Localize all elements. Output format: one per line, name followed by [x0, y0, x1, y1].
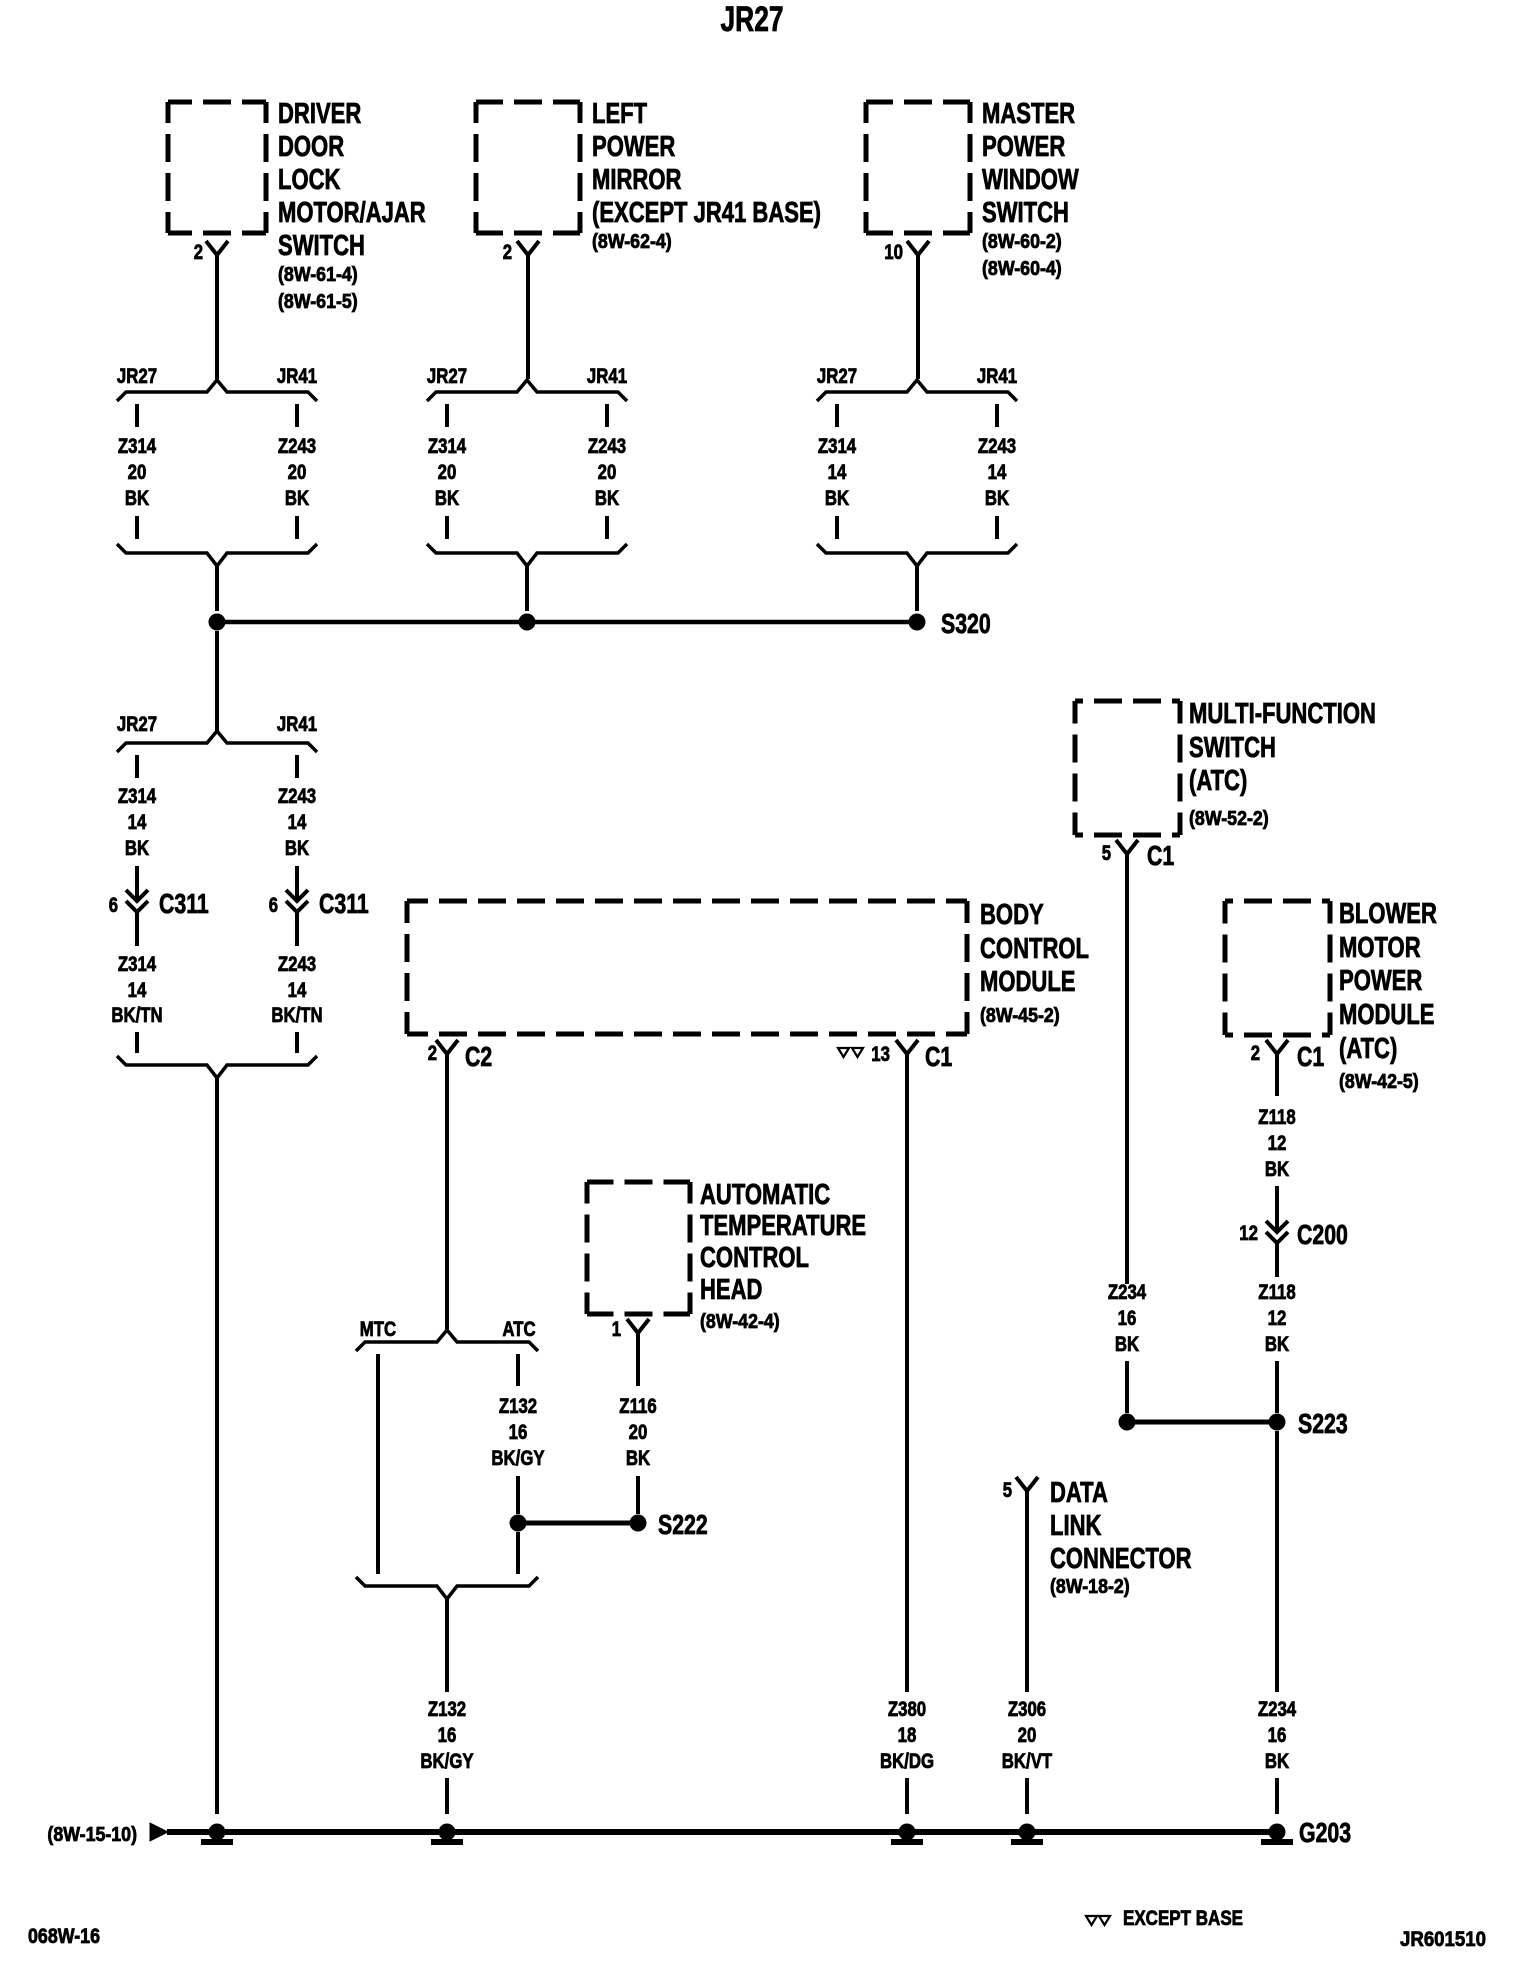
svg-text:AUTOMATIC: AUTOMATIC: [700, 1179, 830, 1211]
svg-text:(8W-52-2): (8W-52-2): [1189, 808, 1269, 830]
merge brace (second level): [117, 1056, 317, 1078]
junction dot S320 right: [909, 614, 926, 631]
wire from DRIVER DOOR LOCK MOTOR/AJAR SWITCH pin 2 down to split brace: [215, 255, 219, 379]
svg-text:BK/TN: BK/TN: [111, 1004, 162, 1027]
svg-text:BK: BK: [1115, 1333, 1139, 1356]
svg-text:(8W-15-10): (8W-15-10): [47, 1824, 137, 1846]
svg-text:(8W-61-4): (8W-61-4): [278, 264, 358, 286]
svg-text:(8W-18-2): (8W-18-2): [1050, 1576, 1130, 1598]
wire from Z132 label to splice S222: [516, 1476, 520, 1514]
svg-text:(ATC): (ATC): [1339, 1033, 1397, 1065]
junction dot S223 left: [1119, 1414, 1136, 1431]
svg-text:SWITCH: SWITCH: [278, 230, 365, 262]
svg-text:13: 13: [871, 1043, 890, 1066]
wire from Z234 label to splice S223: [1125, 1361, 1129, 1413]
ground bus wire G203: [167, 1829, 1277, 1835]
wire stub JR41 (second level): [295, 755, 299, 778]
wire from MASTER POWER WINDOW SWITCH pin 10 down to split brace: [916, 255, 920, 379]
svg-text:18: 18: [898, 1724, 917, 1747]
wire from S320 down to second split brace: [215, 631, 219, 731]
wire stub to ground (Z132): [445, 1778, 449, 1814]
pin 13 connector C1 of body control module: [838, 1048, 849, 1057]
svg-text:5: 5: [1003, 1479, 1013, 1502]
svg-text:(ATC): (ATC): [1189, 765, 1247, 797]
svg-text:Z116: Z116: [619, 1395, 656, 1418]
merge brace under master power window switch: [817, 544, 1017, 566]
svg-text:C311: C311: [159, 888, 209, 919]
splice S222 bus wire: [518, 1521, 638, 1526]
svg-text:BK/GY: BK/GY: [420, 1750, 473, 1773]
svg-text:JR41: JR41: [277, 365, 317, 388]
svg-text:MULTI-FUNCTION: MULTI-FUNCTION: [1189, 698, 1376, 730]
svg-text:(8W-60-4): (8W-60-4): [982, 258, 1062, 280]
wire from merge brace to splice S320 (left power mirror): [525, 566, 529, 611]
wire into connector C311 right: [295, 866, 299, 900]
wire stub JR27 (driver door lock): [135, 404, 139, 427]
component box BLOWER MOTOR POWER MODULE (ATC): [1225, 899, 1330, 904]
svg-text:14: 14: [288, 979, 307, 1002]
wire stub JR27 (second level): [135, 755, 139, 778]
ground symbol at Z306 wire: [1019, 1824, 1036, 1841]
svg-text:BLOWER: BLOWER: [1339, 898, 1437, 930]
svg-text:Z243: Z243: [588, 435, 626, 458]
svg-text:2: 2: [503, 241, 512, 264]
wire stub above merge (right): [295, 1032, 299, 1053]
wire from BCM C2 down to MTC/ATC split brace: [445, 1054, 449, 1329]
wire from BCM C1 down toward ground: [905, 1054, 909, 1692]
svg-text:JR27: JR27: [721, 0, 784, 39]
svg-text:S320: S320: [941, 608, 991, 639]
svg-text:14: 14: [288, 811, 307, 834]
wire MTC branch (long): [376, 1354, 380, 1574]
svg-text:20: 20: [598, 461, 617, 484]
svg-text:Z132: Z132: [428, 1698, 466, 1721]
svg-text:CONNECTOR: CONNECTOR: [1050, 1543, 1192, 1575]
wire stub JR41 (driver door lock): [295, 404, 299, 427]
svg-text:(8W-60-2): (8W-60-2): [982, 231, 1062, 253]
svg-text:LOCK: LOCK: [278, 164, 340, 196]
wire stub JR41 (left power mirror): [605, 404, 609, 427]
svg-text:Z314: Z314: [118, 953, 157, 976]
merge brace under driver door lock: [117, 544, 317, 566]
svg-text:BK: BK: [125, 837, 149, 860]
component box MULTI-FUNCTION SWITCH (ATC): [1075, 699, 1180, 704]
svg-text:5: 5: [1102, 842, 1112, 865]
wire stub ATC branch: [516, 1354, 520, 1386]
svg-text:EXCEPT BASE: EXCEPT BASE: [1123, 1907, 1243, 1930]
svg-text:16: 16: [509, 1421, 528, 1444]
svg-text:20: 20: [288, 461, 307, 484]
wire stub lower JR27 (master power window switch): [835, 516, 839, 539]
svg-text:CONTROL: CONTROL: [980, 933, 1089, 965]
junction dot S223 right: [1269, 1414, 1286, 1431]
svg-text:MASTER: MASTER: [982, 98, 1075, 130]
svg-text:C1: C1: [1297, 1041, 1324, 1072]
svg-text:16: 16: [1118, 1307, 1137, 1330]
split brace JR27/JR41 under master power window switch: [817, 380, 1017, 401]
component box LEFT POWER MIRROR: [476, 100, 580, 105]
svg-text:Z243: Z243: [978, 435, 1016, 458]
svg-text:BK: BK: [1265, 1750, 1289, 1773]
component box DRIVER DOOR LOCK MOTOR/AJAR SWITCH: [168, 100, 266, 105]
wire stub lower JR41 (master power window switch): [995, 516, 999, 539]
junction dot S222 left: [510, 1515, 527, 1532]
wire stub lower JR41 (driver door lock): [295, 516, 299, 539]
ground symbol at Z314/Z243 wire: [209, 1824, 226, 1841]
svg-text:JR27: JR27: [427, 365, 467, 388]
svg-text:20: 20: [629, 1421, 648, 1444]
long wire from second merge down to ground bus: [215, 1078, 219, 1814]
wire stub JR27 (left power mirror): [445, 404, 449, 427]
svg-text:JR41: JR41: [977, 365, 1017, 388]
arrow into ground bus: [150, 1823, 168, 1841]
svg-text:BK: BK: [985, 487, 1009, 510]
svg-text:BK/VT: BK/VT: [1002, 1750, 1053, 1773]
svg-text:12: 12: [1268, 1307, 1287, 1330]
wire stub to ground (Z306): [1025, 1778, 1029, 1814]
svg-text:WINDOW: WINDOW: [982, 164, 1079, 196]
svg-text:BK: BK: [825, 487, 849, 510]
svg-text:(EXCEPT JR41 BASE): (EXCEPT JR41 BASE): [592, 197, 821, 229]
svg-text:2: 2: [1251, 1042, 1260, 1065]
ground symbol G203: [1269, 1824, 1286, 1841]
component box MASTER POWER WINDOW SWITCH: [866, 100, 970, 105]
wire below C311 right: [295, 911, 299, 946]
svg-text:MIRROR: MIRROR: [592, 164, 681, 196]
svg-text:MOTOR: MOTOR: [1339, 932, 1421, 964]
svg-text:G203: G203: [1299, 1817, 1351, 1848]
wire into connector C311 left: [135, 866, 139, 900]
svg-text:20: 20: [1018, 1724, 1037, 1747]
split brace JR27/JR41 (second level): [117, 731, 317, 752]
svg-text:JR27: JR27: [117, 713, 157, 736]
svg-text:POWER: POWER: [592, 131, 675, 163]
svg-text:C2: C2: [465, 1041, 492, 1072]
wire from Z118 label to splice S223: [1275, 1361, 1279, 1413]
svg-text:C1: C1: [925, 1041, 952, 1072]
splice S320 bus wire: [217, 620, 917, 625]
svg-text:Z234: Z234: [1108, 1281, 1147, 1304]
wire from blower module C1 down: [1275, 1054, 1279, 1096]
svg-text:068W-16: 068W-16: [28, 1925, 100, 1948]
wire stub to ground (Z234): [1275, 1778, 1279, 1814]
wire stub lower JR41 (left power mirror): [605, 516, 609, 539]
svg-text:(8W-62-4): (8W-62-4): [592, 231, 672, 253]
svg-text:Z234: Z234: [1258, 1698, 1297, 1721]
svg-text:14: 14: [988, 461, 1007, 484]
svg-text:16: 16: [438, 1724, 457, 1747]
svg-text:JR41: JR41: [587, 365, 627, 388]
svg-text:(8W-45-2): (8W-45-2): [980, 1005, 1060, 1027]
svg-text:Z118: Z118: [1258, 1281, 1296, 1304]
wire from merge brace to splice S320 (master power window switch): [915, 566, 919, 611]
svg-text:LINK: LINK: [1050, 1510, 1101, 1542]
splice S223 bus wire: [1127, 1420, 1277, 1425]
wire from LEFT POWER MIRROR pin 2 down to split brace: [526, 255, 530, 379]
split brace JR27/JR41 under left power mirror: [427, 380, 627, 401]
svg-text:2: 2: [428, 1042, 437, 1065]
svg-text:LEFT: LEFT: [592, 98, 647, 130]
svg-text:MODULE: MODULE: [980, 966, 1076, 998]
svg-text:C200: C200: [1297, 1219, 1348, 1250]
svg-text:BODY: BODY: [980, 899, 1044, 931]
svg-text:Z314: Z314: [118, 785, 157, 808]
wire stub to ground (Z380): [905, 1778, 909, 1814]
svg-text:DOOR: DOOR: [278, 131, 344, 163]
svg-text:(8W-42-5): (8W-42-5): [1339, 1071, 1419, 1093]
svg-text:12: 12: [1239, 1222, 1258, 1245]
svg-text:6: 6: [109, 894, 118, 917]
svg-text:BK: BK: [435, 487, 459, 510]
svg-text:DRIVER: DRIVER: [278, 98, 361, 130]
svg-text:Z314: Z314: [428, 435, 467, 458]
footnote marker EXCEPT BASE: [1086, 1916, 1097, 1925]
svg-text:SWITCH: SWITCH: [1189, 732, 1276, 764]
merge brace under left power mirror: [427, 544, 627, 566]
ground symbol at Z380 wire: [899, 1824, 916, 1841]
svg-text:BK: BK: [125, 487, 149, 510]
component box AUTOMATIC TEMPERATURE CONTROL HEAD: [587, 1180, 690, 1185]
svg-text:BK: BK: [285, 837, 309, 860]
svg-text:HEAD: HEAD: [700, 1274, 762, 1306]
wire stub lower JR27 (left power mirror): [445, 516, 449, 539]
svg-text:Z118: Z118: [1258, 1106, 1296, 1129]
svg-text:20: 20: [438, 461, 457, 484]
svg-text:Z314: Z314: [118, 435, 157, 458]
svg-text:DATA: DATA: [1050, 1477, 1108, 1509]
svg-text:BK/GY: BK/GY: [491, 1447, 544, 1470]
svg-text:(8W-42-4): (8W-42-4): [700, 1311, 780, 1333]
svg-text:Z243: Z243: [278, 435, 316, 458]
svg-text:1: 1: [612, 1318, 622, 1341]
wire stub JR41 (master power window switch): [995, 404, 999, 427]
junction dot S320 left: [209, 614, 226, 631]
wire from S223 down toward ground: [1275, 1431, 1279, 1692]
wire stub JR27 (master power window switch): [835, 404, 839, 427]
svg-text:Z243: Z243: [278, 785, 316, 808]
svg-text:10: 10: [884, 241, 903, 264]
component box BODY CONTROL MODULE: [407, 899, 967, 904]
svg-text:2: 2: [194, 241, 203, 264]
svg-text:BK: BK: [595, 487, 619, 510]
svg-text:C311: C311: [319, 888, 369, 919]
svg-text:JR601510: JR601510: [1400, 1928, 1486, 1951]
wire from ATC head pin 1 down: [636, 1333, 640, 1386]
svg-text:16: 16: [1268, 1724, 1287, 1747]
svg-text:Z380: Z380: [888, 1698, 926, 1721]
svg-text:20: 20: [128, 461, 147, 484]
junction dot S320 middle: [519, 614, 536, 631]
svg-text:TEMPERATURE: TEMPERATURE: [700, 1210, 866, 1242]
wire from MTC/ATC merge down: [445, 1599, 449, 1692]
svg-text:C1: C1: [1147, 840, 1174, 871]
svg-text:BK: BK: [626, 1447, 650, 1470]
merge brace MTC/ATC: [356, 1577, 538, 1599]
wire from merge brace to splice S320 (driver door lock): [215, 566, 219, 611]
svg-text:S223: S223: [1298, 1408, 1348, 1439]
svg-text:JR27: JR27: [817, 365, 857, 388]
svg-text:MTC: MTC: [360, 1318, 396, 1341]
svg-text:BK: BK: [285, 487, 309, 510]
svg-text:POWER: POWER: [982, 131, 1065, 163]
wire from DLC pin 5 down: [1025, 1491, 1029, 1692]
svg-text:JR27: JR27: [117, 365, 157, 388]
svg-text:ATC: ATC: [502, 1318, 535, 1341]
wire below S222 left dot: [516, 1532, 520, 1574]
svg-text:14: 14: [128, 811, 147, 834]
ground symbol at Z132 wire: [439, 1824, 456, 1841]
svg-text:Z243: Z243: [278, 953, 316, 976]
svg-text:14: 14: [828, 461, 847, 484]
wire from Z116 label to splice S222: [636, 1476, 640, 1514]
svg-text:POWER: POWER: [1339, 965, 1422, 997]
svg-text:12: 12: [1268, 1132, 1287, 1155]
svg-text:BK: BK: [1265, 1158, 1289, 1181]
wire below C311 left: [135, 911, 139, 946]
split brace MTC/ATC under BCM C2: [356, 1330, 538, 1351]
wire stub lower JR27 (driver door lock): [135, 516, 139, 539]
svg-text:(8W-61-5): (8W-61-5): [278, 291, 358, 313]
svg-text:BK/TN: BK/TN: [271, 1004, 322, 1027]
junction dot S222 right: [630, 1515, 647, 1532]
svg-text:SWITCH: SWITCH: [982, 197, 1069, 229]
split brace JR27/JR41 under driver door lock: [117, 380, 317, 401]
svg-text:6: 6: [269, 894, 278, 917]
svg-text:Z314: Z314: [818, 435, 857, 458]
svg-text:S222: S222: [658, 1509, 708, 1540]
svg-text:14: 14: [128, 979, 147, 1002]
svg-text:Z306: Z306: [1008, 1698, 1046, 1721]
wire stub above merge (left): [135, 1032, 139, 1053]
svg-text:MODULE: MODULE: [1339, 999, 1435, 1031]
wire below C200: [1275, 1242, 1279, 1277]
svg-text:BK: BK: [1265, 1333, 1289, 1356]
wire from multi-function switch C1 down: [1125, 854, 1129, 1284]
svg-text:JR41: JR41: [277, 713, 317, 736]
svg-text:CONTROL: CONTROL: [700, 1242, 809, 1274]
svg-text:MOTOR/AJAR: MOTOR/AJAR: [278, 197, 426, 229]
svg-text:BK/DG: BK/DG: [880, 1750, 934, 1773]
svg-text:Z132: Z132: [499, 1395, 537, 1418]
wire into connector C200: [1275, 1186, 1279, 1231]
